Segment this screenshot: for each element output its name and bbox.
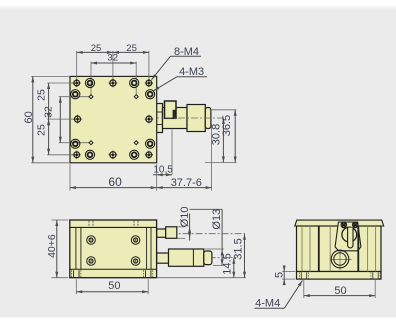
svg-text:25: 25 bbox=[35, 89, 47, 101]
svg-text:5: 5 bbox=[273, 272, 285, 278]
svg-text:31.5: 31.5 bbox=[233, 238, 245, 259]
svg-text:25: 25 bbox=[35, 124, 47, 136]
svg-text:4-M3: 4-M3 bbox=[179, 66, 204, 78]
svg-text:50: 50 bbox=[334, 285, 346, 297]
svg-text:60: 60 bbox=[108, 175, 122, 189]
svg-text:36.5: 36.5 bbox=[221, 115, 233, 136]
svg-text:25: 25 bbox=[91, 43, 102, 54]
svg-text:32: 32 bbox=[43, 106, 55, 118]
svg-text:4-M4: 4-M4 bbox=[255, 298, 280, 310]
svg-text:60: 60 bbox=[23, 111, 35, 123]
svg-text:Ø13: Ø13 bbox=[211, 209, 223, 230]
svg-text:50: 50 bbox=[108, 280, 120, 292]
svg-text:25: 25 bbox=[126, 43, 137, 54]
svg-text:10,5: 10,5 bbox=[153, 164, 173, 175]
svg-text:Ø10: Ø10 bbox=[179, 207, 191, 228]
svg-text:32: 32 bbox=[107, 53, 118, 64]
svg-text:37.7-6: 37.7-6 bbox=[171, 177, 202, 189]
svg-text:40+6: 40+6 bbox=[46, 234, 58, 258]
svg-text:8-M4: 8-M4 bbox=[174, 46, 199, 58]
